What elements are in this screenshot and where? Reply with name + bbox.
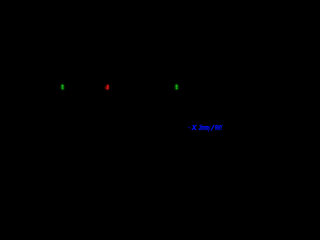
svg-text:RWY: RWY [215,125,223,132]
svg-text:X: X [191,125,198,132]
svg-text:Jimmy: Jimmy [199,125,211,132]
